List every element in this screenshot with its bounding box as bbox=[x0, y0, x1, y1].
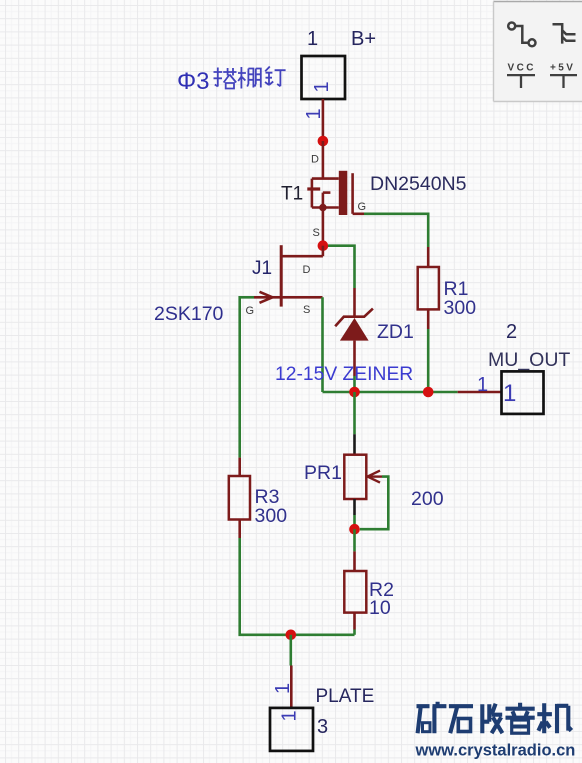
junction node zener / rail bbox=[349, 387, 360, 398]
svg-text:D: D bbox=[311, 154, 319, 166]
wire J1 gate to R3 (green) bbox=[240, 297, 254, 457]
svg-text:J1: J1 bbox=[252, 258, 272, 279]
svg-text:MU_OUT: MU_OUT bbox=[488, 349, 570, 371]
connector MU_OUT pad box bbox=[502, 371, 544, 414]
transistor T1 designator bbox=[281, 184, 303, 205]
svg-text:300: 300 bbox=[255, 505, 288, 527]
pin label D of T1 bbox=[311, 154, 319, 166]
junction dot inside T1 bbox=[319, 204, 327, 212]
wire J1 source down to MU_OUT rail (green) bbox=[321, 297, 324, 392]
resistor R2 body bbox=[344, 571, 366, 613]
wire PR1 bottom to node (green) bbox=[353, 515, 356, 529]
svg-text:12-15V ZEINER: 12-15V ZEINER bbox=[275, 364, 413, 385]
wire T1 gate to R1 top (green) bbox=[364, 214, 428, 247]
svg-text:+5V: +5V bbox=[550, 63, 575, 74]
junction node T1 source / J1 drain bbox=[318, 240, 329, 251]
zener designator ZD1 bbox=[377, 321, 414, 343]
value label 300 (R3) bbox=[255, 505, 288, 527]
MU_OUT rail wire (green) bbox=[323, 391, 458, 394]
svg-text:1: 1 bbox=[477, 374, 488, 396]
value label DN2540N5 bbox=[370, 173, 467, 195]
svg-text:B+: B+ bbox=[351, 28, 376, 50]
wire node down to PLATE (green) bbox=[289, 635, 292, 666]
label 3 (connector PLATE designator) bbox=[317, 716, 328, 738]
pin label D of J1 bbox=[303, 264, 311, 276]
potentiometer PR1 body bbox=[344, 455, 366, 499]
wire B+ pin to node bbox=[322, 99, 325, 141]
value label 2SK170 bbox=[154, 303, 224, 325]
connector X1 B+ pad box bbox=[302, 56, 346, 99]
resistor R1 designator bbox=[444, 278, 469, 300]
transistor T1 DN2540N5 depletion MOSFET symbol bbox=[307, 141, 364, 241]
junction node PR1 wiper / R2 bbox=[349, 524, 360, 535]
svg-text:Φ3: Φ3 bbox=[177, 68, 210, 95]
zener diode ZD1 symbol bbox=[335, 288, 373, 376]
pin label 1 inside PLATE box (rotated) bbox=[279, 710, 301, 721]
svg-text:T1: T1 bbox=[281, 184, 303, 205]
svg-text:PR1: PR1 bbox=[304, 462, 342, 484]
R1 pins (maroon) bbox=[427, 247, 430, 329]
svg-text:1: 1 bbox=[311, 81, 333, 92]
svg-text:1: 1 bbox=[272, 683, 294, 694]
pin label G of J1 bbox=[246, 305, 255, 317]
pin label 1 inside MU_OUT box bbox=[503, 380, 516, 407]
resistor R1 body bbox=[418, 267, 439, 309]
net label MU_OUT bbox=[488, 349, 570, 371]
svg-text:200: 200 bbox=[411, 488, 444, 510]
label 1 (connector X1 designator) bbox=[307, 28, 318, 50]
watermark logo kuangshi shouyinji bbox=[417, 702, 572, 734]
svg-text:S: S bbox=[303, 304, 310, 316]
svg-text:DN2540N5: DN2540N5 bbox=[370, 173, 467, 195]
pin label S of T1 bbox=[313, 227, 320, 239]
wire rail to MU_OUT pin (maroon) bbox=[458, 391, 502, 394]
wire zener to rail (green) bbox=[353, 376, 356, 387]
svg-text:S: S bbox=[313, 227, 320, 239]
value label 10 (R2) bbox=[369, 597, 391, 619]
PR1 designator bbox=[304, 462, 342, 484]
value label 300 (R1) bbox=[444, 297, 477, 319]
svg-text:G: G bbox=[246, 305, 255, 317]
transistor J1 2SK170 JFET symbol bbox=[254, 245, 323, 306]
PR1 top pin (black) bbox=[353, 434, 356, 455]
svg-text:3: 3 bbox=[317, 716, 328, 738]
pin label 1 beside B+ wire (rotated) bbox=[303, 108, 325, 119]
toolbar icon VCC bbox=[507, 63, 536, 89]
connector PLATE pad box bbox=[270, 708, 313, 751]
pin label 1 on MU_OUT wire bbox=[477, 374, 488, 396]
svg-text:2: 2 bbox=[506, 321, 517, 343]
svg-text:10: 10 bbox=[369, 597, 391, 619]
PR1 wiper arrow bbox=[368, 471, 383, 483]
junction node B+ / T1 drain bbox=[318, 136, 329, 147]
pin label 1 inside B+ box (rotated) bbox=[311, 81, 333, 92]
toolbar icon bus bbox=[553, 24, 576, 43]
transistor J1 designator bbox=[252, 258, 272, 279]
resistor R3 body bbox=[229, 476, 250, 520]
wire PR1 wiper to lower node (green) bbox=[360, 477, 389, 530]
svg-text:2SK170: 2SK170 bbox=[154, 303, 224, 325]
svg-text:1: 1 bbox=[503, 380, 516, 407]
value label 200 (PR1) bbox=[411, 488, 444, 510]
wire T1 source node to zener column (green) bbox=[328, 246, 355, 288]
value label 12-15V ZEINER bbox=[275, 364, 413, 385]
svg-text:PLATE: PLATE bbox=[316, 686, 375, 707]
svg-text:D: D bbox=[303, 264, 311, 276]
net label PLATE bbox=[316, 686, 375, 707]
svg-text:ZD1: ZD1 bbox=[377, 321, 414, 343]
wire node to R2 (green then maroon pin) bbox=[353, 529, 356, 551]
svg-text:G: G bbox=[358, 201, 367, 213]
wire R3 bottom to bottom rail (green) bbox=[240, 538, 355, 635]
note text PHI3 (blue annotation) bbox=[177, 67, 286, 96]
pin label S of J1 bbox=[303, 304, 310, 316]
svg-text:www.crystalradio.cn: www.crystalradio.cn bbox=[415, 742, 576, 760]
wire R1 bottom to rail (green) bbox=[427, 329, 430, 387]
svg-text:1: 1 bbox=[279, 710, 301, 721]
wire R2 bottom to rail (green) bbox=[353, 630, 356, 635]
pin label G of T1 bbox=[358, 201, 367, 213]
R3 pins (maroon) bbox=[238, 458, 241, 538]
svg-text:VCC: VCC bbox=[508, 63, 536, 74]
PLATE pin wire (maroon) bbox=[290, 666, 293, 708]
junction node R1 / rail bbox=[423, 387, 434, 398]
wire rail node down to PR1 (green then black pin) bbox=[353, 392, 356, 434]
net label B+ bbox=[351, 28, 376, 50]
watermark url bbox=[415, 742, 576, 760]
pin label 1 beside PLATE wire (rotated) bbox=[272, 683, 294, 694]
toolbar palette panel (top right) bbox=[494, 2, 582, 102]
PR1 bottom pin (black) bbox=[353, 499, 356, 515]
svg-text:300: 300 bbox=[444, 297, 477, 319]
svg-text:1: 1 bbox=[307, 28, 318, 50]
junction node bottom rail / PLATE bbox=[286, 630, 297, 641]
resistor R3 designator bbox=[255, 486, 280, 508]
label 2 (connector MU_OUT designator) bbox=[506, 321, 517, 343]
R2 bottom pin (maroon) bbox=[353, 613, 356, 630]
toolbar icon +5V bbox=[550, 63, 577, 89]
toolbar icon net bbox=[508, 23, 535, 47]
R2 top pin (maroon) bbox=[353, 551, 356, 571]
resistor R2 designator bbox=[369, 579, 394, 601]
